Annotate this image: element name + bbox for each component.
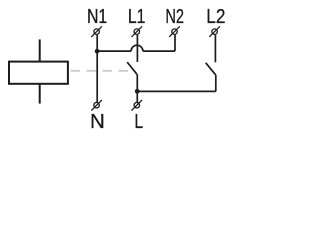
svg-text:L1: L1 (128, 5, 146, 28)
wire L1 lead (fixed contact) (136, 35, 138, 62)
terminal L (bottom) (132, 100, 143, 111)
terminal N1 (91, 26, 102, 37)
terminal L2 (209, 26, 220, 37)
svg-text:N2: N2 (165, 5, 184, 28)
relay coil K1 box (9, 62, 68, 84)
node junction dot N1/bus (95, 49, 100, 54)
node junction dot L branch (135, 89, 140, 94)
terminal N (bottom) (91, 100, 102, 111)
wire L1 pole down to L (136, 74, 138, 102)
svg-text:L2: L2 (206, 5, 225, 28)
wire branch L to L2 riser (137, 90, 216, 92)
mechanical link (dashed) (71, 70, 128, 72)
wire hop over L1 (131, 45, 143, 51)
wire L2 riser (215, 75, 217, 92)
wire bus hop to N2 (143, 50, 175, 52)
wire L2 lead (fixed contact) (214, 35, 216, 63)
wire N1 to N vertical (96, 35, 98, 102)
svg-text:L: L (134, 110, 143, 133)
svg-text:N: N (90, 110, 105, 133)
coil bottom lead wire (39, 84, 41, 104)
wire N2 lead (174, 35, 176, 51)
terminal N2 (169, 26, 180, 37)
coil top lead wire (39, 39, 41, 61)
switch S2 blade (206, 63, 216, 75)
switch S1 blade (127, 62, 137, 74)
terminal L1 (132, 26, 143, 37)
wire bus N1 to hop (97, 50, 131, 52)
svg-text:N1: N1 (87, 5, 107, 28)
